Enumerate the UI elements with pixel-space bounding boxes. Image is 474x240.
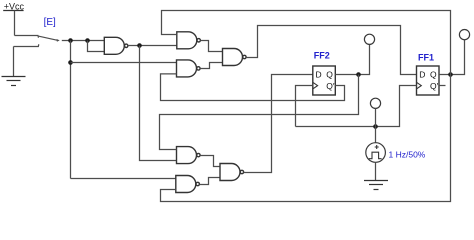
wire gate B output to gate D upper input xyxy=(201,41,223,52)
node N5 xyxy=(373,124,378,129)
power +Vcc symbol xyxy=(3,2,24,12)
NAND gate G xyxy=(220,164,244,181)
wire N6 to gate E upper input xyxy=(160,75,359,150)
switch J1 arm xyxy=(39,36,60,42)
NAND gate C xyxy=(177,60,201,77)
wire switch bottom throw xyxy=(14,44,39,46)
flip-flop FF2 xyxy=(313,66,336,95)
wire FF2 Q to probe X1 xyxy=(335,44,369,74)
svg-text:Q′: Q′ xyxy=(326,81,335,91)
probe X2 xyxy=(459,29,469,39)
wire N1 run to gate F upper input xyxy=(71,178,177,180)
flip-flop FF1 xyxy=(417,66,440,95)
wire gate C output to gate D lower input xyxy=(200,63,222,69)
svg-text:Q′: Q′ xyxy=(430,81,439,91)
wire FF1 Qbar stub xyxy=(439,85,446,87)
svg-text:D: D xyxy=(316,70,322,80)
wire N2 step to gate A lower input xyxy=(88,41,105,52)
ground GND1 xyxy=(2,77,26,86)
svg-text:[E]: [E] xyxy=(44,17,56,28)
wire clock net xyxy=(296,86,417,127)
wire clock source to ground xyxy=(375,162,377,180)
NAND gate D xyxy=(223,49,247,66)
wire N4 drop to gate E lower input xyxy=(140,46,177,161)
wire gate D output to FF1 D input xyxy=(246,26,416,75)
svg-text:Q: Q xyxy=(430,70,437,80)
probe X1 xyxy=(364,34,374,44)
wire ground drop xyxy=(13,47,15,77)
NAND gate A xyxy=(104,37,128,54)
wire N1 vertical run xyxy=(70,41,72,179)
node N3 xyxy=(68,60,73,65)
svg-text:Q: Q xyxy=(326,70,333,80)
ground GND2 xyxy=(364,181,388,190)
node N7 xyxy=(448,72,453,77)
node N1 xyxy=(68,38,73,43)
svg-text:+Vcc: +Vcc xyxy=(4,2,25,12)
NAND gate F xyxy=(176,176,200,193)
clock source V1 xyxy=(366,143,386,163)
node N2 xyxy=(85,38,90,43)
probe X3 xyxy=(370,98,380,126)
node N6 xyxy=(356,72,361,77)
wire switch pole to gate A xyxy=(62,40,105,42)
NAND gate E xyxy=(177,147,201,164)
svg-text:FF2: FF2 xyxy=(314,51,330,61)
wire FF1 Q to probe X2 xyxy=(439,40,465,75)
node N4 xyxy=(137,43,142,48)
wire Vcc stem xyxy=(14,11,16,36)
wire clock source stem xyxy=(375,127,377,143)
wire FF2 Qbar feedback to gate C lower input xyxy=(161,74,345,101)
svg-text:FF1: FF1 xyxy=(418,53,434,63)
wire gate E output to gate G upper input xyxy=(200,156,220,167)
wire gate G output to FF2 D input xyxy=(244,75,313,173)
wire switch top throw xyxy=(15,36,39,38)
wire FF2 clock feed xyxy=(296,86,313,127)
wire feedback top loop to gate B upper input xyxy=(162,11,451,75)
wire feedback bottom loop to gate F lower input xyxy=(161,75,451,202)
wire gate F output to gate G lower input xyxy=(200,178,221,185)
NAND gate B xyxy=(177,32,201,49)
wire N3 to gate C upper input xyxy=(71,62,177,64)
svg-text:D: D xyxy=(419,70,425,80)
svg-text:1 Hz/50%: 1 Hz/50% xyxy=(389,150,426,160)
wire gate A output to gate B lower input xyxy=(128,45,177,47)
